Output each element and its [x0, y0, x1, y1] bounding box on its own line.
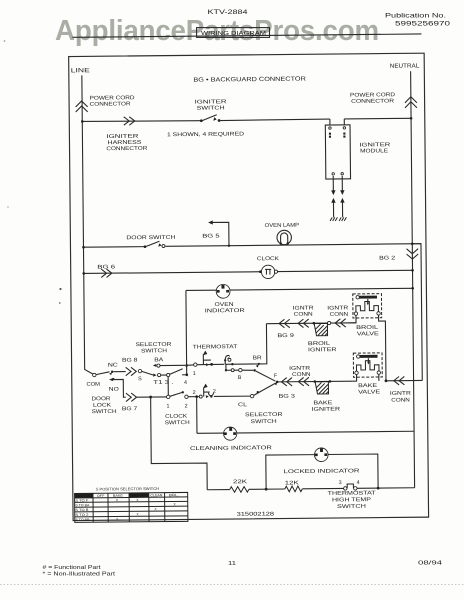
svg-text:LOCK: LOCK [93, 403, 112, 409]
svg-text:S TO F: S TO F [75, 498, 88, 502]
svg-text:CONN: CONN [391, 397, 410, 403]
svg-text:TIMED BAKE: TIMED BAKE [130, 493, 148, 497]
svg-text:CONN: CONN [294, 312, 313, 318]
wire cleaning feed vertical [196, 397, 198, 434]
igniter module box [325, 125, 350, 179]
svg-text:CONN: CONN [330, 312, 349, 318]
svg-text:S TO BR: S TO BR [75, 518, 90, 522]
svg-text:S TO BA: S TO BA [75, 503, 90, 507]
junction dot neutral/box top [411, 287, 414, 290]
NO contact dot [112, 378, 114, 380]
cleaning thermostat contact [199, 395, 202, 398]
broil valve igntr conn chevron [335, 319, 346, 328]
svg-text:CLOCK: CLOCK [257, 256, 280, 262]
selector contact S [138, 369, 141, 372]
selector switch table grid [75, 492, 188, 522]
outer border frame [69, 53, 429, 520]
wire clock row right [214, 395, 250, 397]
svg-text:315002128: 315002128 [237, 511, 275, 517]
return igntr conn chevron [394, 376, 405, 385]
wire B to blade dot [242, 369, 253, 371]
thermostat symbol [203, 354, 211, 364]
BA row contact arrow [153, 364, 156, 367]
svg-text:SWITCH: SWITCH [337, 504, 366, 510]
igniter module pin label bars left [329, 133, 331, 135]
svg-text:SWITCH: SWITCH [92, 409, 117, 415]
svg-text:BA: BA [154, 357, 164, 363]
svg-text:CLEAN: CLEAN [150, 493, 163, 497]
svg-text:1: 1 [166, 404, 169, 410]
svg-text:BG 6: BG 6 [97, 264, 115, 270]
cleaning contact 2 upper hook [224, 359, 226, 361]
cleaning indicator lamp [224, 427, 237, 440]
broil valve meander coil [356, 301, 379, 312]
door switch blade [145, 241, 160, 247]
junction dot locked right [377, 487, 380, 490]
door lock switch COM contact [93, 373, 96, 376]
svg-text:SELECTOR: SELECTOR [135, 342, 171, 348]
door lock switch blade [96, 372, 110, 375]
bake valve box [353, 353, 382, 377]
igniter switch [201, 115, 217, 121]
wire thermostat row left [187, 364, 194, 366]
wire to cleaning feed [188, 396, 199, 398]
svg-text:CONN: CONN [292, 372, 311, 378]
junction dot valve returns [385, 379, 388, 382]
electrode hatch marks right [339, 217, 346, 221]
bake row wire [277, 380, 353, 383]
igniter harness connector chevron [124, 117, 135, 126]
igniter module pin top-right [343, 127, 345, 129]
svg-text:DOOR SWITCH: DOOR SWITCH [126, 235, 175, 241]
svg-text:Publication No.: Publication No. [385, 13, 446, 19]
broil valve coil bar [359, 296, 377, 299]
broil row wire [266, 322, 356, 325]
svg-text:4: 4 [184, 380, 187, 386]
svg-text:2: 2 [213, 389, 216, 395]
NC contact dot [111, 371, 113, 373]
junction dot lock feed [149, 396, 152, 399]
oven indicator lamp [216, 284, 230, 298]
junction dot neutral/BG2 [411, 269, 414, 272]
electrode hatch marks left [330, 217, 337, 221]
clock motor [261, 265, 275, 279]
junction dot neutral/power [410, 117, 413, 120]
svg-text:NC: NC [108, 362, 118, 368]
bake row: F contact [276, 381, 279, 384]
svg-text:T1 3 .: T1 3 . [153, 380, 173, 386]
svg-text:BG 3: BG 3 [278, 394, 295, 400]
svg-text:BG • BACKGUARD CONNECTOR: BG • BACKGUARD CONNECTOR [193, 77, 306, 84]
svg-text:MODULE: MODULE [360, 148, 389, 154]
bake valve coil bar [359, 355, 377, 358]
junction dot thermostat row [210, 363, 213, 366]
wire resistor row left [207, 489, 229, 491]
broil valve terminal right [377, 312, 380, 315]
wire high temp to neutral [357, 487, 415, 490]
BG2 connector chevron down [407, 249, 419, 259]
T1 row contact circle [158, 373, 161, 376]
BA row contact circle [157, 364, 160, 367]
wire T1 drop vertical [167, 377, 169, 396]
svg-text:BAKE: BAKE [113, 494, 123, 498]
spark electrode arrow up right [341, 202, 343, 217]
BG7 connector chevron [126, 393, 137, 402]
wire locked indicator box [266, 454, 378, 489]
svg-text:CLOCK: CLOCK [165, 414, 188, 420]
broil valve terminal left [354, 312, 357, 315]
cleaning contact U hook [208, 393, 213, 396]
contact small circle B row [231, 369, 234, 372]
resistor 12K [285, 486, 303, 492]
svg-text:SELECTOR: SELECTOR [245, 412, 283, 418]
svg-text:OFF: OFF [97, 494, 105, 498]
oven lamp [277, 230, 292, 245]
svg-text:1: 1 [193, 371, 196, 377]
svg-text:2: 2 [185, 403, 188, 409]
svg-text:4: 4 [357, 480, 360, 486]
junction dot neutral/lamp row [411, 242, 414, 245]
wire NC to chevron [113, 371, 125, 373]
wire thermostat row right [225, 363, 257, 365]
wire control box bottom [197, 431, 414, 433]
table header dark cells [75, 493, 93, 498]
contact circle CL [250, 394, 253, 397]
svg-text:OVEN LAMP: OVEN LAMP [265, 223, 300, 229]
svg-text:08/94: 08/94 [418, 561, 442, 567]
svg-text:NO: NO [109, 387, 119, 393]
svg-text:1 SHOWN, 4 REQUIRED: 1 SHOWN, 4 REQUIRED [167, 131, 244, 138]
clock switch contact 2 [185, 395, 188, 398]
broil valve box [353, 294, 382, 318]
wire clock switch row [137, 396, 167, 398]
bake row junction dots [313, 380, 316, 383]
svg-text:CLEANING INDICATOR: CLEANING INDICATOR [190, 445, 272, 452]
thermostat high temp switch [344, 487, 347, 490]
svg-text:5995256970: 5995256970 [395, 22, 451, 28]
BG 5 branch arrow [212, 222, 229, 246]
svg-text:22K: 22K [233, 479, 248, 485]
svg-text:CONNECTOR: CONNECTOR [90, 101, 131, 107]
wire bake valve left lead [353, 375, 357, 381]
igniter module pin bottom-right [341, 173, 343, 175]
junction dot locked left [265, 488, 268, 491]
junction dot line/door row [82, 246, 85, 249]
wire L1 line vertical [82, 75, 94, 374]
wire S to T1 row [142, 371, 153, 375]
svg-text:IGNITER: IGNITER [308, 347, 337, 353]
wire broil valve return [379, 315, 386, 381]
svg-text:B: B [238, 375, 242, 381]
selector blade B to F [256, 371, 276, 382]
broil igntr conn chevron 2 [298, 319, 309, 328]
wire B row [226, 369, 239, 371]
svg-text:SWITCH: SWITCH [141, 348, 167, 354]
wire thermostat row mid [197, 363, 224, 365]
svg-text:S TO 2: S TO 2 [75, 513, 88, 517]
svg-text:BAKE: BAKE [313, 400, 333, 406]
svg-text:LINE: LINE [71, 68, 90, 74]
wire module right pin to neutral [344, 117, 411, 120]
wire neutral vertical [411, 71, 415, 487]
igniter module pin top-left [329, 127, 331, 129]
svg-text:BAKE: BAKE [358, 383, 378, 389]
svg-text:BG 2: BG 2 [379, 255, 395, 261]
scan specks [59, 288, 61, 290]
wire NO branch diagonal [112, 379, 125, 397]
svg-text:S TO B: S TO B [75, 508, 88, 512]
svg-text:3: 3 [339, 480, 342, 486]
wire BR to broil riser [259, 324, 267, 364]
bake valve meander coil [356, 361, 379, 372]
wire between resistors [249, 488, 285, 490]
wire power row left [82, 120, 201, 122]
svg-text:BROIL: BROIL [308, 341, 330, 347]
junction dot row/B drop [231, 363, 233, 365]
svg-text:X: X [116, 517, 119, 521]
svg-text:SWITCH: SWITCH [251, 419, 277, 425]
svg-text:CONNECTOR: CONNECTOR [351, 98, 394, 104]
svg-text:THERMOSTAT: THERMOSTAT [328, 490, 377, 496]
svg-text:F: F [274, 373, 278, 379]
T1 row pivot circle [167, 373, 170, 376]
locked indicator lamp [314, 448, 328, 462]
svg-text:VALVE: VALVE [358, 389, 381, 395]
svg-text:IGNTR: IGNTR [390, 391, 411, 397]
svg-text:5 POSITION SELECTOR SWITCH: 5 POSITION SELECTOR SWITCH [96, 487, 159, 492]
bake igniter hatched wedge [315, 382, 328, 394]
svg-text:2: 2 [227, 355, 230, 361]
spark electrode arrow up left [332, 203, 334, 218]
svg-text:BG 5: BG 5 [202, 233, 220, 239]
wire door switch row left [83, 246, 145, 249]
svg-text:S: S [138, 376, 142, 382]
power cord connector left chevron [76, 101, 88, 112]
footer faint dotted rule [0, 584, 464, 586]
svg-text:DOOR: DOOR [91, 396, 110, 402]
BR contact dot [258, 363, 260, 365]
svg-text:VALVE: VALVE [357, 331, 380, 337]
svg-text:SWITCH: SWITCH [197, 105, 225, 111]
svg-text:X: X [137, 512, 140, 516]
svg-text:THERMOSTAT: THERMOSTAT [193, 344, 238, 350]
wire broil valve left lead [348, 315, 356, 323]
thermostat row contact 1 [194, 363, 197, 366]
wire BG6-BG2 row [84, 270, 413, 273]
junction dot box left bottom [185, 373, 188, 376]
junction dot cleaning feed [195, 395, 198, 398]
igniter module pin label bars right [343, 133, 345, 135]
svg-text:BG 9: BG 9 [277, 333, 294, 339]
svg-text:* = Non-Illustrated Part: * = Non-Illustrated Part [43, 572, 116, 578]
wire door lock feed down [151, 397, 208, 491]
svg-text:IGNITER: IGNITER [312, 407, 341, 413]
module electrode arrow down left [332, 176, 334, 190]
broil igntr conn chevron 1 [279, 319, 290, 328]
clock switch contact 1 [167, 395, 170, 398]
wire B row drop [225, 364, 227, 370]
wire return riser to lamp row [413, 244, 422, 381]
svg-text:LOCKED INDICATOR: LOCKED INDICATOR [284, 468, 360, 475]
clock switch blade [170, 392, 182, 396]
power cord connector right chevron [405, 97, 417, 108]
junction dot box left/BA row [185, 364, 188, 367]
svg-text:KTV-2884: KTV-2884 [208, 10, 249, 16]
wire to high temp switch [302, 487, 343, 489]
top rule line [72, 34, 421, 37]
bake valve terminal left [355, 371, 358, 374]
bake igntr conn chevron 1 [281, 378, 292, 387]
svg-text:BROIL: BROIL [356, 325, 378, 331]
module electrode arrow down right [341, 176, 343, 190]
svg-text:SWITCH: SWITCH [165, 420, 190, 426]
wire control box left vertical [185, 290, 188, 374]
blade CL to F [254, 390, 264, 395]
wire control box top [186, 288, 413, 290]
bake igntr conn chevron 2 [298, 377, 309, 386]
svg-text:11: 11 [228, 561, 236, 567]
svg-text:HIGH TEMP: HIGH TEMP [332, 497, 372, 503]
broil igniter hatched wedge [314, 323, 327, 335]
junction dot line/BG6 [82, 272, 85, 275]
BG6 connector chevron [101, 269, 112, 278]
wire power row right [219, 119, 330, 120]
bake valve terminal right [377, 371, 380, 374]
wire bake return to riser [386, 379, 422, 381]
junction dot line/power [81, 120, 84, 123]
wire bake valve return [378, 374, 380, 381]
svg-text:BRL.: BRL. [169, 493, 179, 497]
svg-text:SWITCH: SWITCH [75, 494, 92, 498]
selector contact B [239, 368, 242, 371]
svg-text:BG 8: BG 8 [122, 358, 138, 364]
wire BA row [160, 364, 185, 366]
svg-text:NEUTRAL: NEUTRAL [390, 63, 420, 69]
resistor 22K [230, 487, 249, 493]
igniter module pin bottom-left [332, 173, 334, 175]
svg-text:BG 7: BG 7 [122, 406, 138, 412]
wiring diagram label box [197, 28, 270, 38]
svg-text:# = Functional Part: # = Functional Part [43, 565, 102, 571]
svg-text:CONNECTOR: CONNECTOR [106, 146, 147, 152]
svg-text:COM: COM [86, 382, 100, 388]
svg-text:CL: CL [238, 402, 247, 408]
wire door switch row to neutral [165, 244, 420, 247]
svg-text:INDICATOR: INDICATOR [205, 308, 245, 314]
svg-text:IGNTR: IGNTR [327, 305, 348, 311]
T1 selector blade [170, 369, 183, 375]
svg-text:BR: BR [253, 355, 262, 361]
svg-text:2: 2 [193, 390, 196, 396]
wire module top stubs [330, 119, 344, 125]
broil row junction dots [313, 322, 316, 325]
BG8 connector chevron [126, 367, 137, 376]
